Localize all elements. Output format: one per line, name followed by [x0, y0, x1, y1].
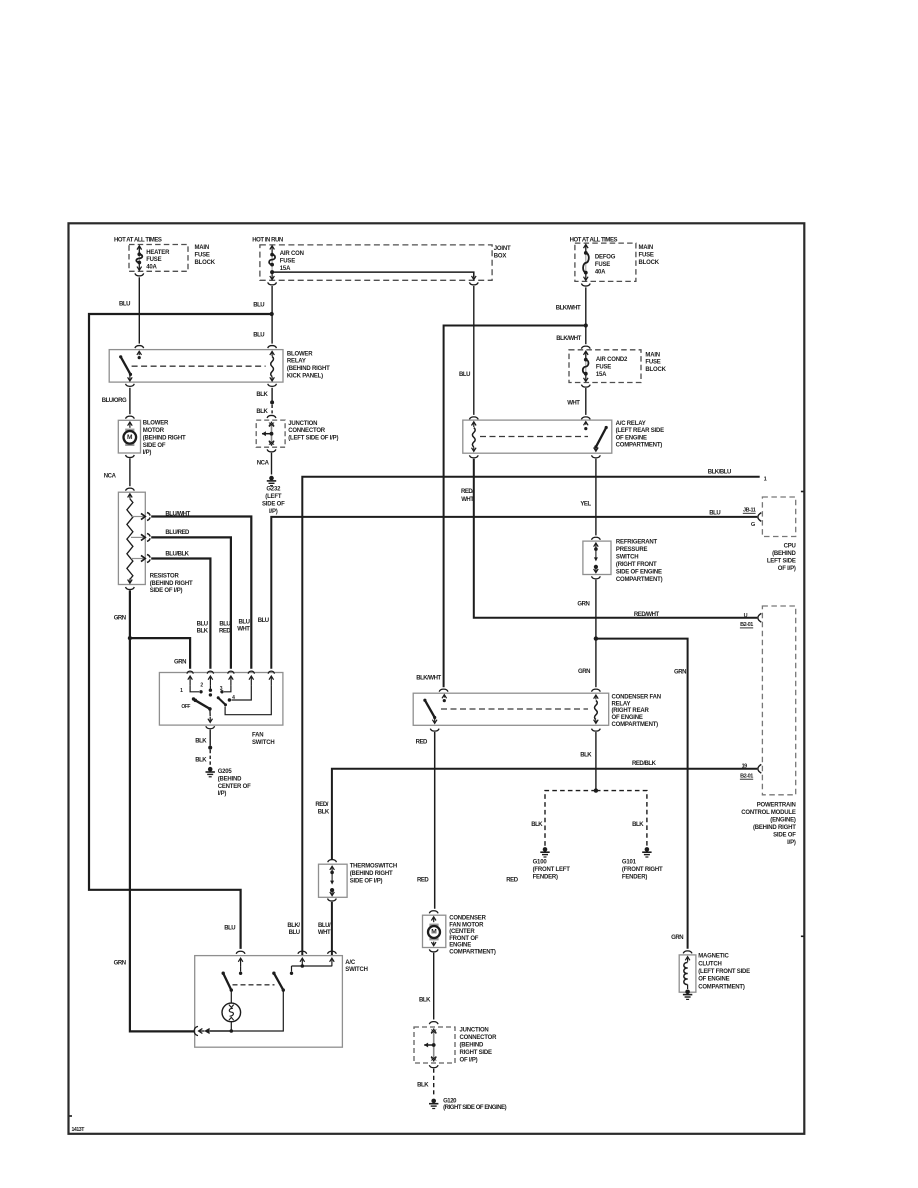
- node GRN branch junction: [128, 636, 132, 640]
- resistor box: [118, 492, 145, 584]
- svg-text:CONTROL MODULE: CONTROL MODULE: [741, 810, 796, 816]
- wire BLU/ORG relay to blower motor: [129, 388, 131, 414]
- label GRN (left, lower): [114, 961, 126, 967]
- label CONDENSER FAN RELAY (RIGHT REAR OF ENGINE COMPARTMENT): [612, 695, 661, 728]
- wire GRN resistor to A/C switch: [130, 590, 194, 1031]
- A/C relay internal dashed link: [480, 436, 588, 438]
- connector magnetic clutch entry: [683, 951, 692, 954]
- label BLK (relay coil out): [256, 392, 268, 398]
- label CPU (BEHIND LEFT SIDE OF I/P): [767, 543, 797, 572]
- label BLK/BLU (to CPU): [708, 470, 731, 476]
- connector blower relay switch exit: [126, 384, 135, 387]
- condenser fan relay internal dashed link: [441, 708, 588, 710]
- connector A/C relay coil exit: [469, 455, 478, 458]
- wire GRN junction to condenser fan relay: [595, 640, 597, 687]
- connector blower motor exit: [126, 455, 135, 458]
- svg-text:POWERTRAIN: POWERTRAIN: [757, 803, 796, 809]
- svg-text:BLU/BLK: BLU/BLK: [165, 552, 189, 558]
- label BLU WHT (fan switch col 4): [237, 620, 250, 633]
- connector junction connector 2 exit: [429, 1065, 438, 1068]
- svg-text:HOT IN RUN: HOT IN RUN: [252, 238, 283, 244]
- label RED/WHT (to PCM): [634, 612, 660, 618]
- clutch box MAGNETIC CLUTCH: [679, 955, 696, 992]
- svg-text:JOINT: JOINT: [494, 246, 511, 252]
- label BLU (below junction): [253, 333, 264, 339]
- A/C switch BLU entry arm: [238, 958, 243, 975]
- ground (magnetic clutch): [683, 990, 692, 1000]
- label OFF: [181, 704, 190, 710]
- svg-text:1413T: 1413T: [72, 1127, 86, 1133]
- connector resistor exit: [126, 587, 135, 590]
- svg-text:SIDE OF: SIDE OF: [262, 502, 285, 508]
- label YEL: [580, 502, 591, 508]
- label THERMOSWITCH (BEHIND RIGHT SIDE OF I/P): [350, 864, 397, 885]
- svg-text:BLK: BLK: [195, 739, 207, 745]
- svg-text:FENDER): FENDER): [622, 874, 647, 880]
- svg-text:WHT: WHT: [237, 627, 250, 633]
- fuse HEATER FUSE 40A: [136, 246, 142, 270]
- label BLK (below junction dot): [256, 409, 268, 415]
- svg-text:JB-11: JB-11: [743, 508, 756, 514]
- svg-text:(CENTER: (CENTER: [449, 929, 475, 935]
- svg-text:SWITCH: SWITCH: [252, 740, 274, 746]
- connector junction connector 2 entry: [429, 1022, 438, 1025]
- svg-text:G101: G101: [622, 860, 637, 866]
- label BLU/RED (resistor tap): [165, 530, 190, 536]
- magnetic clutch coil: [684, 957, 690, 989]
- blower relay internal dashed link: [132, 365, 266, 367]
- label BLU/WHT (resistor tap): [165, 512, 190, 518]
- svg-text:40A: 40A: [595, 270, 606, 276]
- svg-text:HOT AT ALL TIMES: HOT AT ALL TIMES: [114, 238, 162, 244]
- svg-text:COMPARTMENT): COMPARTMENT): [698, 984, 745, 990]
- wire BLU bus to A/C switch: [89, 314, 272, 949]
- motor box CONDENSER FAN MOTOR: [423, 915, 446, 947]
- wire RED relay to condenser fan motor: [434, 732, 436, 909]
- fuse AIR CON FUSE 15A: [269, 246, 275, 279]
- wire joint box internal branch: [272, 272, 474, 277]
- svg-text:40A: 40A: [146, 265, 157, 271]
- svg-text:RED/: RED/: [315, 802, 328, 808]
- svg-text:BLK: BLK: [256, 409, 268, 415]
- label JUNCTION CONNECTOR (BEHIND RIGHT SIDE OF I/P): [460, 1028, 498, 1064]
- svg-text:RESISTOR: RESISTOR: [150, 573, 180, 579]
- resistor tap stubs and arrows: [131, 513, 145, 561]
- svg-text:OF ENGINE: OF ENGINE: [616, 435, 647, 441]
- svg-text:SIDE OF: SIDE OF: [143, 443, 166, 449]
- motor box BLOWER MOTOR: [118, 420, 140, 453]
- svg-text:(LEFT: (LEFT: [265, 494, 282, 500]
- wire NCA motor to resistor: [129, 458, 131, 486]
- svg-text:BLU/: BLU/: [318, 923, 331, 929]
- label BLU/BLK (resistor tap): [165, 552, 189, 558]
- svg-text:CPU: CPU: [784, 543, 796, 549]
- connector junction connector exit: [267, 449, 276, 452]
- svg-text:GRN: GRN: [671, 935, 683, 941]
- wire BLK junction connector to G120: [433, 1069, 435, 1097]
- node BLU junction: [270, 312, 274, 316]
- label A/C RELAY (LEFT REAR SIDE OF ENGINE COMPARTMENT): [616, 421, 665, 449]
- label GRN (condenser fan relay): [578, 669, 590, 675]
- module box POWERTRAIN CONTROL MODULE (dashed): [762, 606, 795, 795]
- label BLK (to G205): [195, 757, 207, 763]
- wire BLK condenser relay coil to grounds: [545, 732, 647, 846]
- svg-text:FUSE: FUSE: [645, 360, 660, 366]
- svg-text:WHT: WHT: [567, 401, 580, 407]
- svg-text:G232: G232: [266, 487, 281, 493]
- wire GRN branch to fan switch: [130, 638, 190, 669]
- svg-text:GRN: GRN: [114, 615, 126, 621]
- svg-text:SIDE OF I/P): SIDE OF I/P): [150, 588, 183, 594]
- wire BLU/WHT thermoswitch to A/C switch: [331, 902, 333, 955]
- svg-text:RED/: RED/: [461, 489, 474, 495]
- label MAIN FUSE BLOCK (air cond2): [645, 352, 666, 373]
- svg-text:BLK: BLK: [632, 822, 644, 828]
- svg-text:COMPARTMENT): COMPARTMENT): [616, 443, 663, 449]
- relay box CONDENSER FAN RELAY: [413, 693, 609, 725]
- svg-text:BLK/WHT: BLK/WHT: [556, 305, 581, 311]
- wire BLK/BLU A/C switch to CPU pin 1: [302, 477, 759, 955]
- svg-text:SIDE OF ENGINE: SIDE OF ENGINE: [616, 570, 662, 576]
- connector resistor entry: [126, 488, 135, 491]
- svg-text:M: M: [127, 434, 133, 441]
- svg-text:CONNECTOR: CONNECTOR: [288, 428, 326, 434]
- fuse DEFOG FUSE 40A: [583, 245, 589, 281]
- fan switch OFF contact: [192, 697, 195, 700]
- fuse block box (heater fuse): [129, 245, 188, 272]
- svg-text:OF ENGINE: OF ENGINE: [698, 977, 729, 983]
- node BLK/WHT junction: [584, 323, 588, 327]
- svg-text:HEATER: HEATER: [146, 250, 170, 256]
- thermoswitch contacts: [330, 866, 335, 895]
- connector thermoswitch exit: [328, 899, 337, 902]
- fan switch rotor lever: [194, 699, 212, 711]
- wire BLK/WHT to condenser fan relay: [444, 326, 586, 688]
- svg-text:REFRIGERANT: REFRIGERANT: [616, 540, 658, 546]
- svg-text:THERMOSWITCH: THERMOSWITCH: [350, 864, 397, 870]
- svg-text:BOX: BOX: [494, 253, 507, 259]
- svg-text:FENDER): FENDER): [533, 874, 558, 880]
- fan switch secondary lever: [217, 696, 227, 706]
- switch box REFRIGERANT PRESSURE SWITCH: [583, 541, 611, 574]
- svg-text:AIR COND2: AIR COND2: [596, 357, 628, 363]
- svg-text:MAIN: MAIN: [195, 245, 210, 251]
- connector fan switch exit: [206, 726, 215, 729]
- wire GRN junction to magnetic clutch: [596, 639, 688, 949]
- svg-text:NCA: NCA: [104, 474, 117, 480]
- fan switch entry arrows: [187, 671, 275, 685]
- blower motor symbol: [124, 422, 137, 446]
- svg-text:1: 1: [764, 476, 767, 482]
- diode (A/C switch output): [194, 1026, 209, 1035]
- label POWERTRAIN CONTROL MODULE (ENGINE) (BEHIND RIGHT SIDE OF I/P): [741, 803, 796, 847]
- label RED (floating): [506, 878, 518, 884]
- connector blower relay right entry: [268, 346, 277, 349]
- svg-text:CONNECTOR: CONNECTOR: [460, 1035, 498, 1041]
- svg-text:(BEHIND RIGHT: (BEHIND RIGHT: [143, 435, 186, 441]
- wire WHT fuse to A/C relay: [585, 388, 587, 415]
- svg-text:SWITCH: SWITCH: [345, 967, 367, 973]
- label GRN (pressure switch out): [577, 602, 589, 608]
- label BLK (to G101): [632, 822, 644, 828]
- connector thermoswitch entry: [328, 860, 337, 863]
- label BLK (relay coil out): [580, 753, 592, 759]
- svg-text:B2-01: B2-01: [740, 774, 753, 780]
- svg-text:YEL: YEL: [580, 502, 591, 508]
- svg-text:RED: RED: [506, 878, 518, 884]
- svg-text:OF I/P): OF I/P): [460, 1058, 478, 1064]
- wire GRN pressure switch to junction: [595, 580, 597, 637]
- svg-text:CENTER OF: CENTER OF: [218, 784, 251, 790]
- label GRN (resistor out): [114, 615, 126, 621]
- connector condenser fan relay left entry: [439, 689, 448, 692]
- svg-text:BLU: BLU: [459, 372, 470, 378]
- blower relay switch arm: [119, 351, 141, 381]
- switch box A/C SWITCH: [195, 956, 343, 1048]
- fan switch contact wiring 2: [209, 685, 212, 696]
- resistor tap connector 3: [147, 555, 150, 563]
- svg-text:(LEFT REAR SIDE: (LEFT REAR SIDE: [616, 428, 665, 434]
- connector condenser fan relay switch exit: [430, 729, 439, 732]
- svg-text:CONDENSER FAN: CONDENSER FAN: [612, 695, 661, 701]
- connector condenser fan relay coil exit: [592, 729, 601, 732]
- label GRN (magnetic clutch): [671, 935, 683, 941]
- svg-text:SIDE OF: SIDE OF: [773, 833, 796, 839]
- label BLU BLK (fan switch col 2): [197, 622, 209, 635]
- svg-text:OF ENGINE: OF ENGINE: [612, 715, 643, 721]
- condenser fan relay coil: [594, 695, 599, 723]
- svg-text:COMPARTMENT): COMPARTMENT): [616, 577, 663, 583]
- wire BLK/WHT defog fuse down: [585, 287, 587, 344]
- switch box THERMOSWITCH: [319, 864, 348, 897]
- svg-text:BLOCK: BLOCK: [195, 260, 216, 266]
- svg-text:(BEHIND: (BEHIND: [218, 776, 242, 782]
- condenser fan motor symbol: [428, 917, 440, 946]
- svg-text:BLU: BLU: [709, 511, 720, 517]
- label BLK (motor out): [419, 998, 431, 1004]
- svg-text:BLK/BLU: BLK/BLU: [708, 470, 731, 476]
- label NCA (to G232): [257, 460, 270, 466]
- junction connector (behind right side of I/P): [414, 1027, 455, 1063]
- svg-text:COMPARTMENT): COMPARTMENT): [612, 722, 659, 728]
- connector below heater fuse: [135, 273, 144, 276]
- condenser fan relay switch arm: [423, 695, 446, 724]
- A/C relay switch arm: [584, 422, 608, 452]
- fan switch output: [208, 709, 213, 723]
- wire BLK relay coil to junction connector: [270, 388, 274, 414]
- svg-text:RED/WHT: RED/WHT: [634, 612, 660, 618]
- label JOINT BOX: [494, 246, 511, 259]
- svg-text:AIR CON: AIR CON: [280, 251, 304, 257]
- connector A/C relay switch exit: [592, 455, 601, 458]
- svg-text:I/P): I/P): [143, 450, 152, 456]
- label WHT: [567, 401, 580, 407]
- svg-text:FAN MOTOR: FAN MOTOR: [449, 922, 484, 928]
- svg-text:BLK/: BLK/: [287, 923, 300, 929]
- label RED/ WHT (relay coil out): [461, 489, 474, 503]
- svg-text:KICK PANEL): KICK PANEL): [287, 373, 323, 379]
- svg-text:(BEHIND: (BEHIND: [772, 551, 796, 557]
- svg-text:(RIGHT SIDE OF ENGINE): (RIGHT SIDE OF ENGINE): [443, 1105, 507, 1111]
- svg-text:BLOWER: BLOWER: [287, 351, 313, 357]
- label MAIN FUSE BLOCK (left): [195, 245, 216, 266]
- svg-text:MAGNETIC: MAGNETIC: [698, 954, 729, 960]
- svg-text:(FRONT RIGHT: (FRONT RIGHT: [622, 867, 663, 873]
- ground G205: [206, 767, 215, 777]
- connector blower motor entry: [126, 416, 135, 419]
- svg-text:(RIGHT FRONT: (RIGHT FRONT: [616, 562, 657, 568]
- wire BLK fan switch to G205: [208, 730, 212, 765]
- svg-text:(BEHIND RIGHT: (BEHIND RIGHT: [753, 825, 796, 831]
- svg-text:SWITCH: SWITCH: [616, 555, 638, 561]
- fan switch contact wiring 1: [190, 685, 203, 693]
- svg-text:DEFOG: DEFOG: [595, 255, 616, 261]
- connector below defog fuse: [581, 284, 590, 287]
- label HOT AT ALL TIMES (right): [570, 238, 618, 244]
- module box CPU (dashed): [762, 497, 795, 537]
- svg-text:FUSE: FUSE: [280, 258, 295, 264]
- label BLU (above junction): [253, 303, 264, 309]
- pin U B2-01 connector: [740, 613, 761, 628]
- svg-text:(BEHIND RIGHT: (BEHIND RIGHT: [150, 581, 193, 587]
- svg-text:U: U: [744, 613, 748, 619]
- connector A/C switch BLU/WHT entry: [328, 951, 337, 954]
- svg-text:GRN: GRN: [174, 659, 186, 665]
- connector pressure switch exit: [592, 576, 601, 579]
- arrow joint box exit right: [472, 273, 477, 280]
- label BLOWER MOTOR (BEHIND RIGHT SIDE OF I/P): [143, 421, 186, 457]
- svg-text:BLU/ORG: BLU/ORG: [102, 398, 127, 404]
- svg-text:BLK: BLK: [531, 822, 543, 828]
- label CONDENSER FAN MOTOR (CENTER FRONT OF ENGINE COMPARTMENT): [449, 916, 496, 956]
- svg-text:BLK/WHT: BLK/WHT: [556, 336, 581, 342]
- svg-text:(FRONT LEFT: (FRONT LEFT: [533, 867, 571, 873]
- connector A/C switch BLU entry: [236, 951, 245, 954]
- label BLK/WHT (above junction): [556, 305, 581, 311]
- label G101 (FRONT RIGHT FENDER): [622, 860, 663, 881]
- connector air cond2 fuse entry: [581, 346, 590, 349]
- svg-text:15A: 15A: [280, 266, 291, 272]
- svg-text:BLU: BLU: [253, 333, 264, 339]
- svg-text:BLK: BLK: [419, 998, 431, 1004]
- svg-text:I/P): I/P): [269, 509, 278, 515]
- label RED/ BLK (thermoswitch): [315, 802, 329, 815]
- label RESISTOR (BEHIND RIGHT SIDE OF I/P): [150, 573, 193, 594]
- svg-text:2: 2: [200, 683, 203, 689]
- wire BLU/WHT resistor tap to fan switch: [151, 517, 251, 669]
- svg-text:1: 1: [180, 688, 183, 694]
- svg-text:NCA: NCA: [257, 460, 270, 466]
- svg-text:15A: 15A: [596, 372, 607, 378]
- label AIR CON FUSE 15A: [280, 251, 304, 272]
- svg-text:SIDE OF I/P): SIDE OF I/P): [350, 878, 383, 884]
- label A/C SWITCH: [345, 960, 367, 973]
- svg-text:(LEFT SIDE OF I/P): (LEFT SIDE OF I/P): [288, 436, 338, 442]
- relay box BLOWER RELAY: [109, 350, 283, 383]
- svg-text:A/C: A/C: [345, 960, 356, 966]
- connector condenser fan motor entry: [429, 911, 438, 914]
- svg-text:I/P): I/P): [218, 791, 227, 797]
- wire YEL A/C relay to pressure switch: [595, 459, 597, 536]
- label BLK (to G100): [531, 822, 543, 828]
- svg-text:RED: RED: [416, 739, 428, 745]
- label RED (relay out): [416, 739, 428, 745]
- svg-text:B2-01: B2-01: [740, 622, 753, 628]
- label HOT AT ALL TIMES (left): [114, 238, 162, 244]
- label BLU (to JB-11): [709, 511, 720, 517]
- svg-text:GRN: GRN: [674, 669, 686, 675]
- wire NCA junction connector to G232: [271, 453, 273, 475]
- svg-text:I/P): I/P): [787, 840, 796, 846]
- frame tick marks: [69, 492, 803, 1117]
- svg-text:LEFT SIDE: LEFT SIDE: [767, 559, 796, 565]
- svg-text:RED: RED: [417, 878, 429, 884]
- A/C relay coil: [472, 422, 477, 452]
- svg-text:MAIN: MAIN: [645, 352, 660, 358]
- svg-text:(LEFT FRONT SIDE: (LEFT FRONT SIDE: [698, 969, 750, 975]
- ground G120: [429, 1099, 438, 1109]
- svg-text:RED/BLK: RED/BLK: [632, 761, 657, 767]
- fan switch contact wiring 3: [220, 685, 231, 693]
- svg-text:RIGHT SIDE: RIGHT SIDE: [460, 1050, 493, 1056]
- wire BLK motor to junction connector: [433, 953, 435, 1020]
- svg-text:CLUTCH: CLUTCH: [698, 961, 721, 967]
- label G232 (LEFT SIDE OF I/P): [262, 487, 285, 516]
- label REFRIGERANT PRESSURE SWITCH (RIGHT FRONT SIDE OF ENGINE COMPARTMENT): [616, 540, 663, 584]
- pin 1 (CPU): [764, 476, 767, 482]
- svg-text:(BEHIND RIGHT: (BEHIND RIGHT: [350, 871, 393, 877]
- label NCA (motor out): [104, 474, 117, 480]
- pin 19 B2-01 connector: [740, 764, 761, 780]
- svg-text:G205: G205: [218, 769, 233, 775]
- connector A/C switch BLK/BLU entry: [298, 951, 307, 954]
- label G100 (FRONT LEFT FENDER): [533, 860, 571, 881]
- fuse AIR COND2 FUSE 15A: [583, 351, 589, 381]
- svg-text:FUSE: FUSE: [595, 262, 610, 268]
- svg-text:BLK: BLK: [417, 1083, 429, 1089]
- pressure switch contacts: [594, 543, 599, 573]
- label MAIN FUSE BLOCK (defog): [639, 245, 660, 266]
- arrow joint box exit left: [270, 273, 275, 280]
- svg-text:WHT: WHT: [318, 930, 331, 936]
- svg-text:FAN: FAN: [252, 733, 263, 739]
- connector blower relay left entry: [135, 346, 144, 349]
- resistor tap connector 1: [147, 513, 150, 521]
- wire BLU/BLK resistor tap to fan switch: [151, 559, 210, 669]
- label JUNCTION CONNECTOR (LEFT SIDE OF I/P): [288, 421, 338, 442]
- label G205 (BEHIND CENTER OF I/P): [218, 769, 251, 797]
- wire RED/WHT A/C relay coil to PCM pin U: [474, 459, 758, 618]
- svg-text:GRN: GRN: [114, 961, 126, 967]
- svg-text:MOTOR: MOTOR: [143, 428, 165, 434]
- label BLU (A/C switch feed): [224, 926, 235, 932]
- A/C switch lever2 branch to bottom rail: [231, 990, 283, 1031]
- label GRN (fan switch feed): [174, 659, 186, 665]
- switch box FAN SWITCH: [159, 673, 283, 726]
- svg-text:OFF: OFF: [181, 704, 190, 710]
- wire BLU joint box to A/C relay coil: [473, 286, 475, 415]
- svg-text:BLU: BLU: [197, 622, 208, 628]
- connector A/C relay left entry: [469, 417, 478, 420]
- label BLK/WHT (condenser fan relay): [416, 676, 441, 682]
- label BLOWER RELAY (BEHIND RIGHT KICK PANEL): [287, 351, 330, 379]
- fan switch contact wiring 4: [228, 685, 252, 701]
- svg-text:RELAY: RELAY: [612, 701, 631, 707]
- svg-text:BLU: BLU: [224, 926, 235, 932]
- svg-text:PRESSURE: PRESSURE: [616, 547, 648, 553]
- svg-text:G100: G100: [533, 860, 548, 866]
- fuse block box (air cond2): [569, 350, 641, 383]
